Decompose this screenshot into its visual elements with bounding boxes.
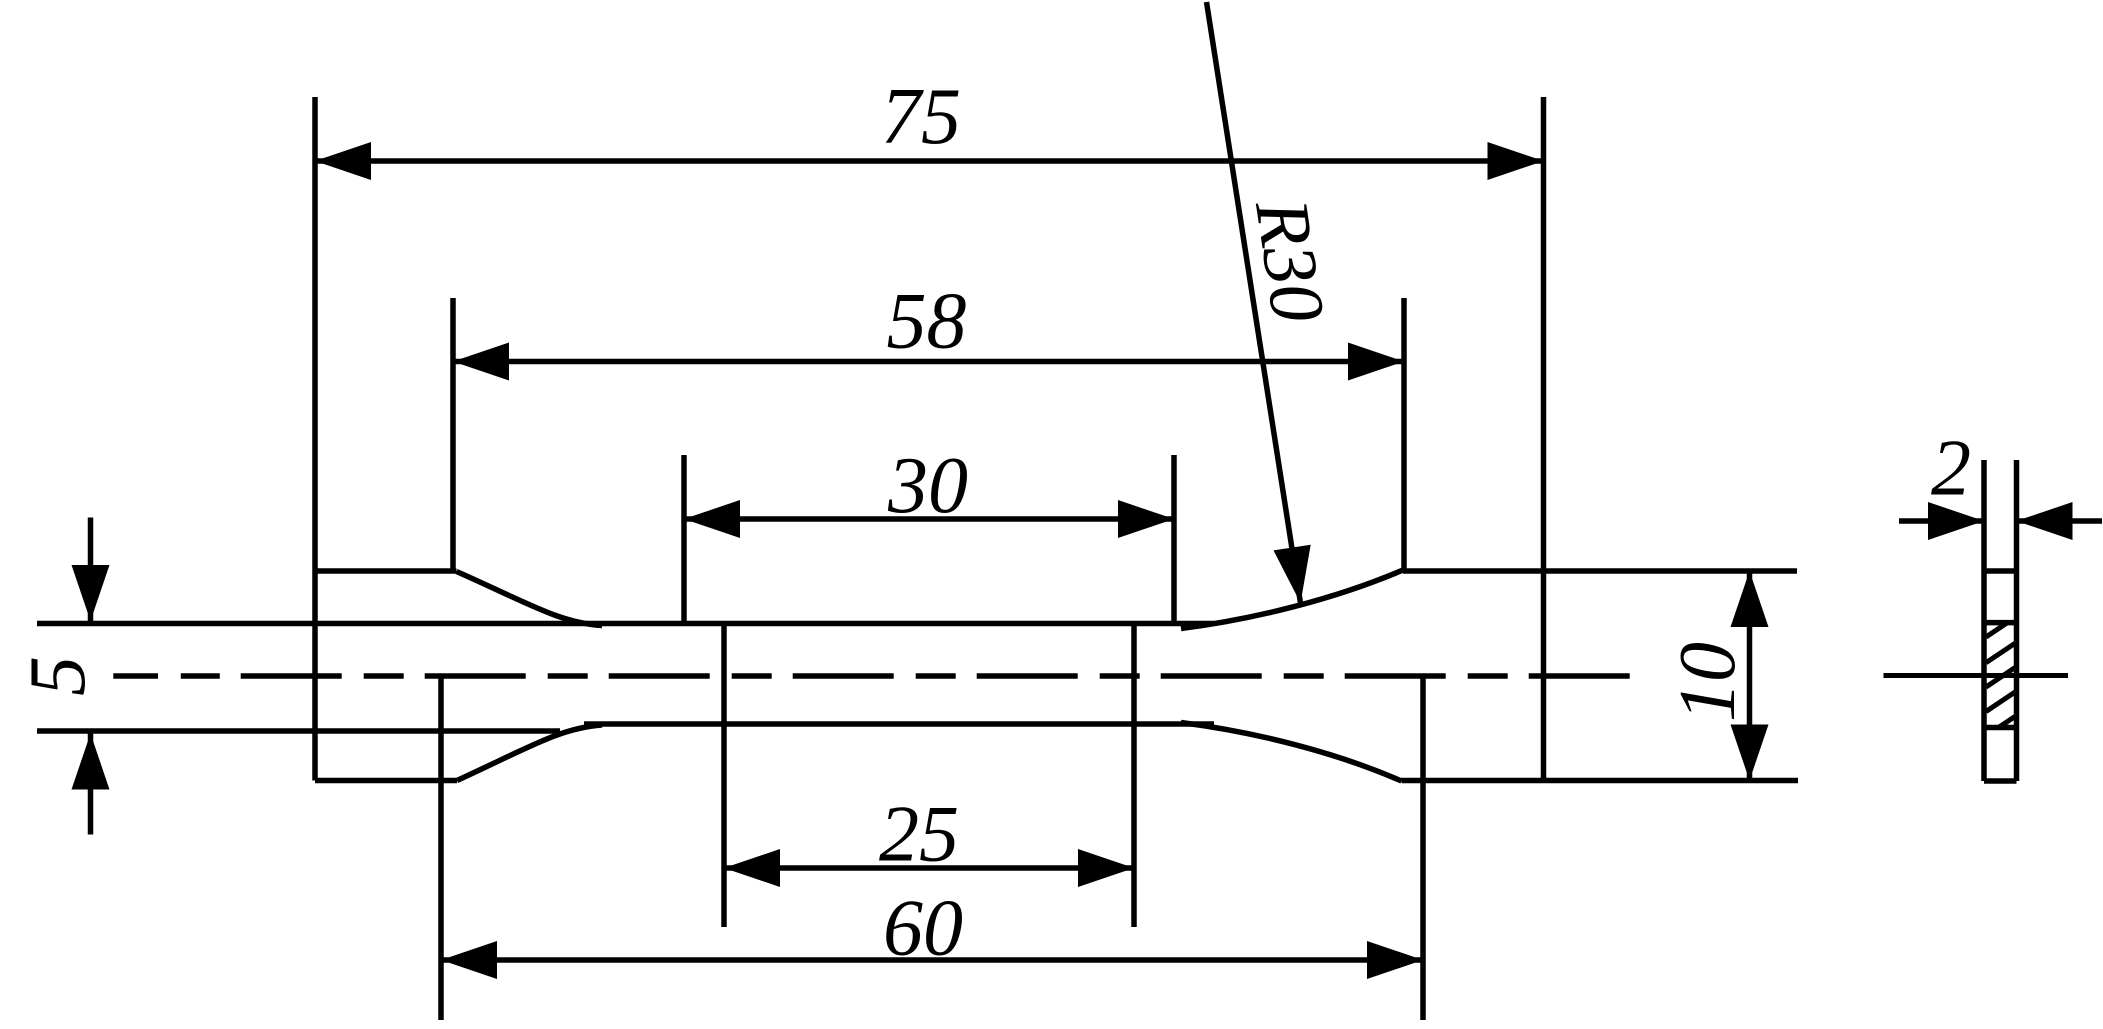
arrowhead 60 left bbox=[441, 941, 497, 979]
arrowhead R30 bbox=[1274, 545, 1311, 603]
dimension line 30 bbox=[684, 516, 1174, 522]
arrowhead 10 bottom bbox=[1731, 725, 1769, 781]
centerline chain dashes bbox=[241, 673, 1630, 679]
arrowhead 75 right bbox=[1488, 142, 1544, 180]
arrowhead 30 right bbox=[1118, 500, 1174, 538]
gauge bottom edge bbox=[584, 721, 1214, 727]
bottom shoulder edge right bbox=[1402, 778, 1799, 784]
extension line 30 left bbox=[681, 455, 687, 624]
section view top edge bbox=[1984, 568, 2017, 574]
fillet top-right R30 bbox=[1181, 570, 1403, 629]
extension line 60 left bbox=[438, 676, 444, 1020]
section division upper bbox=[1984, 620, 2017, 626]
leader line R30 bbox=[1207, 2, 1301, 603]
svg-text:25: 25 bbox=[879, 791, 959, 879]
svg-text:60: 60 bbox=[883, 885, 963, 973]
svg-text:75: 75 bbox=[881, 73, 961, 161]
svg-text:58: 58 bbox=[887, 278, 967, 366]
specimen left end edge bbox=[312, 97, 318, 781]
hatch lines bbox=[1986, 623, 2017, 728]
dimension line 2 right tail bbox=[2017, 518, 2103, 524]
extension line 30 right bbox=[1171, 455, 1177, 624]
arrowhead 58 left bbox=[453, 343, 509, 381]
arrowhead 5 bottom bbox=[72, 734, 110, 790]
dimension line 5 vertical bbox=[88, 518, 94, 622]
dimension line 25 bbox=[724, 865, 1134, 871]
arrowhead 60 right bbox=[1367, 941, 1423, 979]
dimension line 2 left tail bbox=[1899, 518, 1984, 524]
arrowhead 2 left bbox=[1928, 502, 1984, 540]
centerline short dash 1 bbox=[113, 673, 158, 679]
dimension line 10 vertical bbox=[1747, 571, 1753, 781]
svg-text:5: 5 bbox=[14, 656, 102, 696]
section view bottom edge bbox=[1984, 778, 2017, 784]
extension line 25 left bbox=[721, 622, 727, 927]
gauge bottom extension line left bbox=[37, 728, 560, 734]
arrowhead 10 top bbox=[1731, 571, 1769, 627]
section division lower bbox=[1984, 725, 2017, 731]
extension line 75 right bbox=[1541, 97, 1547, 781]
extension line 58 right bbox=[1401, 298, 1407, 571]
extension line 60 right bbox=[1420, 676, 1426, 1020]
centerline short dash 2 bbox=[181, 673, 220, 679]
arrowhead 75 left bbox=[315, 142, 371, 180]
extension line 58 left bbox=[450, 298, 456, 571]
svg-text:10: 10 bbox=[1664, 642, 1752, 722]
arrowhead 58 right bbox=[1348, 343, 1404, 381]
dimension line 75 bbox=[315, 158, 1544, 164]
extension line 25 right bbox=[1131, 622, 1137, 927]
arrowhead 5 top bbox=[72, 565, 110, 621]
svg-text:30: 30 bbox=[887, 442, 968, 530]
dimension line 60 bbox=[441, 957, 1423, 963]
fillet bottom-right bbox=[1181, 723, 1402, 782]
top shoulder edge right bbox=[1403, 568, 1797, 574]
gauge top edge with left extension bbox=[37, 621, 1214, 627]
section centerline bbox=[1884, 673, 2069, 678]
section view right edge bbox=[2014, 460, 2020, 781]
arrowhead 25 right bbox=[1078, 849, 1134, 887]
bottom shoulder edge left bbox=[315, 778, 457, 784]
arrowhead 25 left bbox=[724, 849, 780, 887]
arrowhead 2 right bbox=[2017, 502, 2073, 540]
arrowhead 30 left bbox=[684, 500, 740, 538]
fillet bottom-left bbox=[457, 725, 602, 781]
section view left edge bbox=[1981, 460, 1987, 781]
dimension line 58 bbox=[453, 359, 1404, 365]
fillet top-left bbox=[457, 572, 603, 626]
svg-text:2: 2 bbox=[1931, 425, 1971, 513]
top shoulder edge left bbox=[315, 568, 457, 574]
